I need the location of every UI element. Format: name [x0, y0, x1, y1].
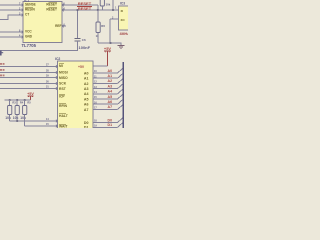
svg-text:RESIN: RESIN	[25, 7, 35, 11]
wire A0	[93, 72, 118, 74]
wire gnd row y45.5	[98, 43, 121, 46]
wire R4 top pin	[16, 100, 18, 106]
svg-text:A3: A3	[84, 87, 89, 91]
svg-text:A4: A4	[84, 92, 89, 96]
wire RESET step down	[97, 5, 99, 10]
svg-text:D1: D1	[108, 123, 113, 127]
svg-text:A1: A1	[84, 77, 89, 81]
junction C6 top	[77, 9, 79, 11]
wire R5 bottom pin	[24, 115, 26, 127]
capacitor C6 plates	[75, 38, 81, 41]
wire CT step	[0, 15, 23, 20]
wire SENSE y5	[0, 4, 23, 6]
svg-text:RESET: RESET	[46, 8, 57, 12]
wire RESIN y10	[0, 9, 23, 11]
microcontroller IC2 body	[58, 61, 94, 129]
svg-text:R3: R3	[12, 100, 16, 104]
svg-text:SENSE: SENSE	[25, 2, 36, 6]
svg-text:+5V: +5V	[78, 65, 85, 69]
wire R3 bottom pin	[9, 115, 11, 122]
IC2 pin name WAIT overline	[59, 123, 66, 125]
bus entry A6	[118, 99, 124, 104]
resistor R7 top right	[100, 0, 104, 6]
wire bottom y120	[10, 120, 58, 122]
bus entry A2	[118, 78, 124, 83]
wire x110 down	[109, 19, 111, 43]
svg-text:A2: A2	[84, 82, 89, 86]
svg-text:GND: GND	[25, 34, 33, 38]
junction R4 top	[16, 99, 18, 101]
IC2 pin name row1 overline	[59, 63, 64, 65]
svg-text:4MHz: 4MHz	[120, 32, 129, 36]
svg-text:D0: D0	[108, 118, 113, 122]
svg-text:A5: A5	[108, 95, 113, 99]
IC1 pin name RESET overline	[49, 2, 58, 4]
wire A1	[93, 77, 118, 79]
svg-text:RESET: RESET	[78, 6, 92, 11]
svg-text:SCK: SCK	[59, 81, 67, 85]
IC1 pin name /RESET overline	[49, 7, 58, 9]
svg-text:TL7705: TL7705	[22, 43, 37, 48]
junction RESET node	[97, 9, 99, 11]
bus entry A4	[118, 89, 124, 94]
wire R6 top pin	[97, 10, 99, 22]
bus entry A3	[118, 84, 124, 89]
resistor R6	[96, 22, 100, 33]
svg-text:A0: A0	[108, 69, 113, 73]
bus entry A0	[118, 68, 124, 73]
svg-text:D1: D1	[84, 126, 89, 129]
wire SCK y83	[0, 83, 58, 85]
wire MI y66	[0, 66, 58, 68]
wire VCC pin20	[93, 65, 108, 67]
svg-text:+5V: +5V	[27, 92, 34, 96]
svg-text:CT: CT	[25, 12, 29, 16]
svg-text:A7: A7	[108, 105, 113, 109]
IC2 pin name RFIN overline	[59, 103, 66, 105]
left edge net label stub 2	[0, 69, 5, 71]
svg-text:+5V: +5V	[104, 46, 112, 51]
bus entry A1	[118, 73, 124, 78]
svg-text:D0: D0	[84, 121, 89, 125]
+5V power symbol resistor bank	[27, 92, 34, 100]
svg-text:A6: A6	[84, 103, 89, 107]
capacitor C6 top wire	[77, 10, 79, 38]
wire D1	[93, 126, 118, 128]
bus entry A7	[118, 104, 124, 109]
wire A7	[93, 108, 118, 110]
junction y45.5 x110	[110, 42, 112, 44]
IC1 right pin arrows	[62, 4, 64, 28]
crystal IC3 body top right	[119, 6, 130, 30]
svg-text:RESET: RESET	[46, 3, 57, 7]
background	[0, 0, 128, 128]
wire +5V bus y100	[4, 99, 30, 101]
svg-text:C6: C6	[82, 38, 86, 42]
wire C6 bottom	[0, 41, 78, 51]
IC1 left pin arrows	[22, 4, 24, 39]
wire R6 bottom pin	[97, 33, 99, 44]
wire GND pin y37	[0, 36, 23, 38]
wire MISO y77.5	[0, 77, 58, 79]
wire D0	[93, 122, 118, 124]
svg-text:ICP: ICP	[59, 94, 65, 98]
bus entry D0	[118, 118, 124, 123]
ground symbol right	[118, 46, 125, 49]
bus entry D1	[118, 122, 124, 127]
svg-text:A3: A3	[108, 84, 113, 88]
wire VCC y32	[0, 31, 23, 33]
IC1 REF pin stub	[62, 25, 66, 27]
svg-text:MISO: MISO	[59, 76, 68, 80]
net label /RESET overline	[77, 6, 92, 8]
resistor R5	[23, 106, 27, 115]
svg-text:A0: A0	[84, 71, 89, 75]
left edge net label stub 1	[0, 63, 5, 65]
wire R3 top pin	[9, 100, 11, 106]
wire R7 bottom pin	[101, 6, 103, 10]
svg-text:A5: A5	[84, 97, 89, 101]
wire vertical from top x113	[112, 0, 114, 10]
svg-text:R4: R4	[20, 100, 24, 104]
svg-text:MOSI: MOSI	[59, 70, 68, 74]
svg-text:R5: R5	[27, 100, 31, 104]
svg-text:RFIN: RFIN	[59, 104, 67, 108]
svg-text:IC3: IC3	[120, 2, 125, 6]
wire R5 top pin	[24, 100, 26, 106]
wire /RESET out y10	[62, 9, 119, 11]
wire A5	[93, 98, 118, 100]
junction R3 top	[9, 99, 11, 101]
svg-text:RST: RST	[59, 87, 67, 91]
+5V power symbol middle	[104, 46, 112, 66]
wire A4	[93, 93, 118, 95]
wire R4 bottom pin	[16, 115, 18, 122]
svg-text:A4: A4	[108, 90, 113, 94]
svg-text:XI: XI	[121, 9, 124, 13]
svg-text:HALT: HALT	[59, 114, 69, 118]
junction R4 bottom	[16, 120, 18, 122]
left edge net label stub 3	[0, 75, 5, 77]
IC2 left pin arrows	[56, 65, 58, 127]
svg-text:100nF: 100nF	[79, 45, 91, 50]
svg-text:R6: R6	[101, 24, 105, 28]
wire bottom y125.5	[25, 125, 58, 127]
bus line	[122, 62, 124, 129]
wire RST y88.5	[0, 88, 58, 90]
wire A6	[93, 103, 118, 105]
wire MOSI y72	[0, 72, 58, 74]
resistor R3	[8, 106, 12, 115]
svg-text:A7: A7	[84, 108, 89, 112]
wire A3	[93, 88, 118, 90]
IC2 pin name HALT overline	[59, 113, 66, 115]
IC1 pin name RESIN overline	[25, 6, 33, 8]
svg-text:A1: A1	[108, 74, 113, 78]
svg-text:A2: A2	[108, 79, 113, 83]
svg-text:IC2: IC2	[55, 57, 60, 61]
junction R5 top	[24, 99, 26, 101]
svg-text:A6: A6	[108, 100, 113, 104]
IC2 pin name ICP overline	[59, 93, 65, 95]
wire IC3 pin2	[110, 18, 119, 20]
svg-text:VCC: VCC	[25, 29, 32, 33]
ground symbol left edge	[0, 51, 3, 56]
junction x113 y10	[112, 9, 114, 11]
wire RESET out y5	[62, 4, 98, 6]
wire A2	[93, 82, 118, 84]
svg-text:WAIT: WAIT	[59, 124, 68, 128]
resistor R4	[15, 106, 19, 115]
svg-text:MI: MI	[59, 64, 63, 68]
bus entry A5	[118, 94, 124, 99]
svg-text:REF: REF	[55, 24, 61, 28]
svg-text:10k: 10k	[106, 3, 111, 7]
supervisor IC1 body	[23, 2, 62, 43]
